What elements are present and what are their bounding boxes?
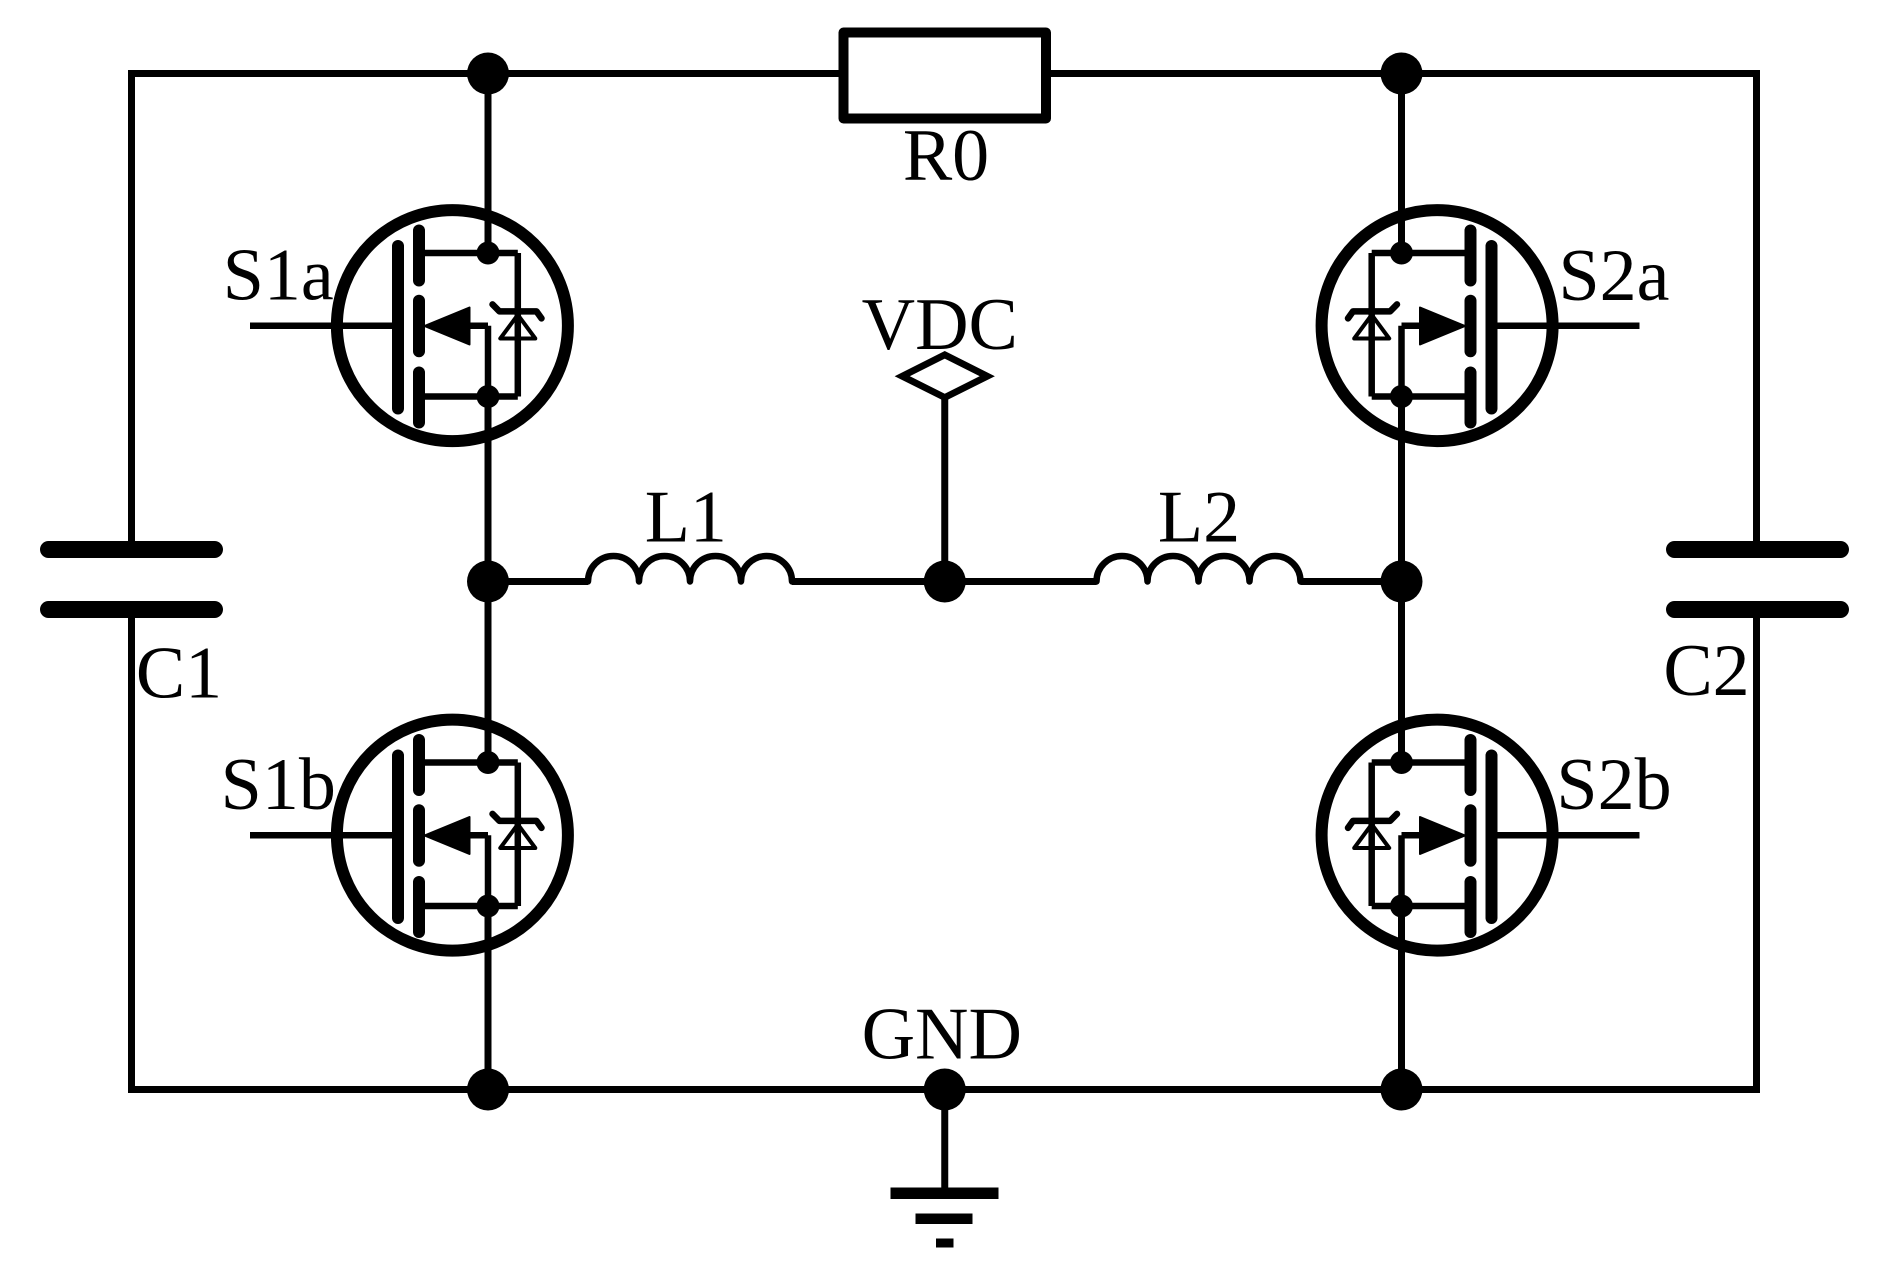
node mid-right junction dot (1381, 561, 1423, 603)
wire bottom rail (128, 1086, 1760, 1093)
svg-text:S1b: S1b (221, 744, 336, 826)
wire left side (upper, above C1) (128, 74, 135, 543)
node top-right junction dot (1381, 53, 1423, 95)
wire right side (upper, above C2) (1753, 74, 1760, 543)
svg-text:L2: L2 (1158, 476, 1240, 558)
ground GND (891, 1090, 999, 1244)
wire mid rail left segment (488, 578, 588, 585)
svg-text:GND: GND (862, 994, 1022, 1076)
wire mid rail center segment (792, 578, 1097, 585)
node GND junction dot (924, 1069, 966, 1111)
inductor L1 (588, 556, 792, 582)
transistor S1b (250, 582, 568, 1090)
wire mid rail right segment (1301, 578, 1402, 585)
wire right side (lower, below C2) (1753, 617, 1760, 1090)
svg-text:VDC: VDC (862, 284, 1018, 366)
resistor R0 (844, 33, 1047, 119)
node mid-left junction dot (467, 561, 509, 603)
capacitor C1 (49, 541, 215, 558)
capacitor C2 (1675, 541, 1841, 558)
svg-text:S2b: S2b (1556, 744, 1671, 826)
voltage source VDC (diamond symbol) (902, 355, 987, 398)
transistor S2b (1322, 582, 1640, 1090)
inductor L2 (1097, 556, 1301, 582)
node bottom-right junction dot (1381, 1069, 1423, 1111)
svg-text:R0: R0 (903, 115, 989, 197)
transistor S1a (250, 74, 568, 582)
wire top rail (128, 70, 1760, 77)
wire VDC stem (941, 398, 948, 582)
node top-left junction dot (467, 53, 509, 95)
node bottom-left junction dot (467, 1069, 509, 1111)
svg-text:C2: C2 (1663, 630, 1749, 712)
svg-text:C1: C1 (136, 633, 222, 715)
node VDC junction dot (924, 561, 966, 603)
svg-text:S1a: S1a (223, 235, 334, 317)
svg-text:S2a: S2a (1559, 235, 1670, 317)
svg-text:L1: L1 (645, 476, 727, 558)
wire left side (lower, below C1) (128, 617, 135, 1090)
transistor S2a (1322, 74, 1640, 582)
